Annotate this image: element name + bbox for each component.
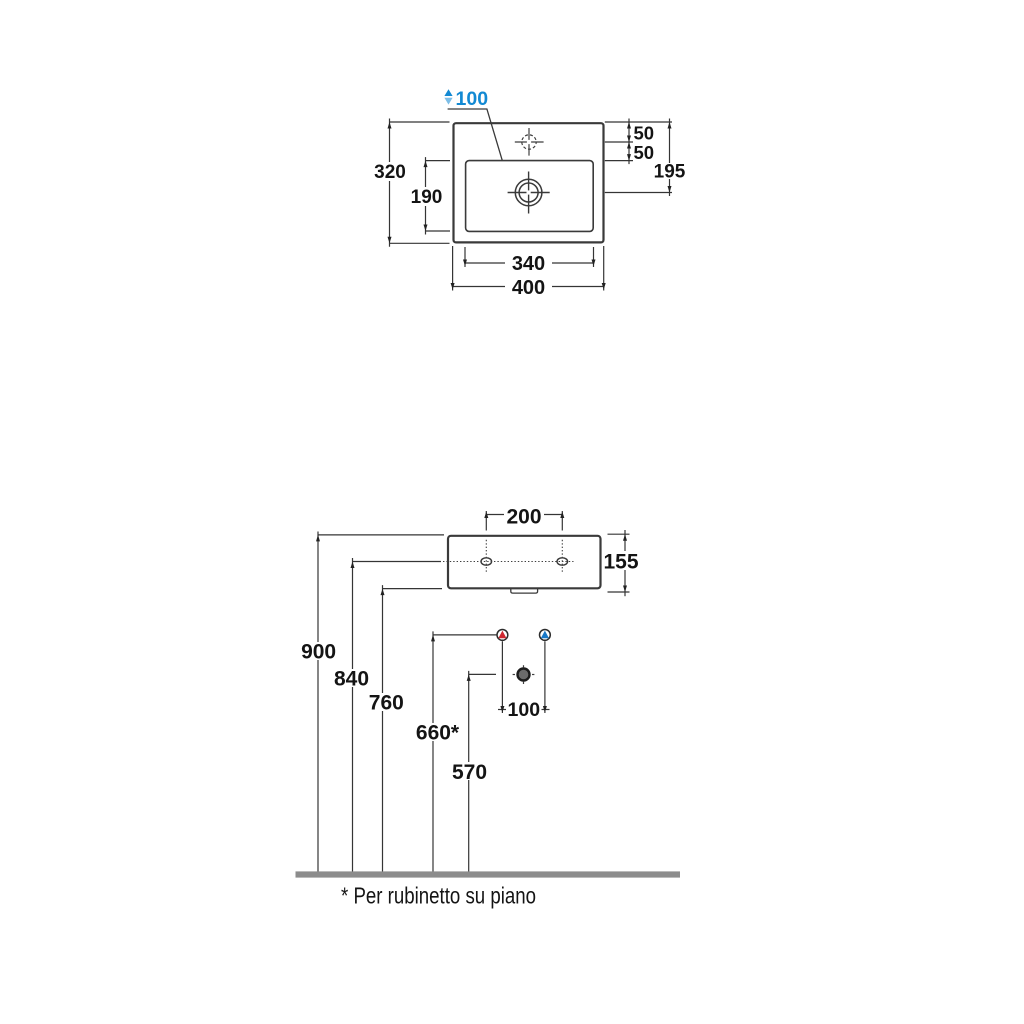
faucet hole dashed crosshair	[515, 128, 544, 156]
svg-text:50: 50	[634, 142, 655, 163]
height dimension 760	[383, 585, 443, 871]
svg-text:50: 50	[634, 123, 655, 144]
height dimension 660*	[433, 631, 497, 871]
elevation: right tap hole oval with dashed centrelines	[557, 540, 568, 573]
svg-text:900: 900	[301, 641, 336, 664]
elevation: drain tab under basin	[511, 588, 538, 593]
waste outlet symbol (filled circle)	[513, 665, 535, 684]
dimension 200 (between tap holes)	[486, 511, 562, 531]
svg-text:320: 320	[374, 162, 406, 183]
height dimension 570	[469, 671, 496, 872]
svg-text:840: 840	[334, 667, 369, 690]
svg-text:660*: 660*	[416, 722, 460, 745]
svg-text:760: 760	[369, 692, 404, 715]
dimension 190 (plan inner left)	[426, 157, 451, 234]
drain crosshair with concentric circles	[508, 172, 550, 214]
svg-text:570: 570	[452, 761, 487, 784]
svg-text:195: 195	[654, 161, 686, 182]
dimension 195 (plan right, long line)	[669, 119, 671, 197]
svg-text:400: 400	[512, 277, 545, 299]
elevation: left tap hole oval with dashed centrelines	[481, 540, 492, 573]
svg-text:* Per rubinetto su piano: * Per rubinetto su piano	[341, 883, 536, 909]
plan view: inner bowl rectangle	[466, 161, 594, 232]
height dimension 900 (wall line to floor)	[318, 532, 444, 872]
svg-text:100: 100	[456, 88, 489, 110]
dimension 340 (plan bottom inner)	[465, 247, 594, 267]
svg-text:100: 100	[508, 699, 541, 721]
dimension 155 (elevation right)	[608, 530, 630, 596]
dimension 400 (plan bottom outer)	[453, 246, 604, 291]
svg-text:200: 200	[506, 505, 541, 528]
svg-text:340: 340	[512, 253, 545, 275]
height dimension 840	[353, 558, 442, 872]
leader line from blue label to inner bowl edge	[448, 109, 503, 161]
floor line	[296, 871, 681, 877]
extension lines right side (top edge, faucet centre, bowl top, drain centre)	[605, 122, 672, 193]
elevation: basin front rectangle	[448, 536, 601, 589]
plan view: outer basin rectangle	[454, 123, 604, 242]
footnote: Per rubinetto su piano	[341, 883, 536, 909]
blue label 100 with double-arrow icon	[444, 88, 488, 110]
svg-text:190: 190	[411, 187, 443, 208]
dimension 320 (plan left)	[390, 119, 450, 247]
dimension 100 (between hot/cold lines)	[498, 641, 550, 713]
elevation: dotted horizontal centreline through tap holes	[443, 561, 574, 563]
cold water symbol (blue)	[540, 630, 551, 641]
svg-text:155: 155	[603, 551, 638, 574]
hot water symbol (red)	[497, 630, 508, 641]
dimension 50 / 50 (plan right, short line)	[628, 119, 630, 165]
